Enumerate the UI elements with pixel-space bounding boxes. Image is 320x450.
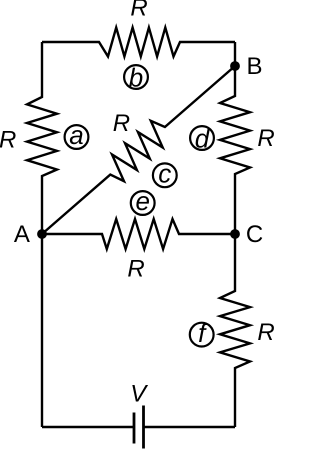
circled letter a (marker for resistor Ra) — [65, 120, 89, 150]
circled letter f (marker for resistor Rf) — [190, 318, 214, 348]
node A junction dot — [37, 229, 47, 239]
wire bottom-right: battery positive plate to corner — [144, 426, 236, 428]
circled letter b (marker for resistor Rb) — [124, 62, 148, 92]
resistor Rc (diagonal, between node A and node B) — [42, 66, 235, 234]
battery V negative plate (short) — [133, 413, 136, 444]
wire from node A down to bottom-left corner — [41, 234, 43, 427]
resistor Rd (right side, between node B and node C) — [220, 66, 250, 234]
svg-text:R: R — [0, 127, 16, 154]
svg-text:R: R — [130, 0, 147, 21]
svg-text:c: c — [158, 158, 171, 188]
circled letter c (marker for resistor Rc) — [153, 158, 177, 188]
circled letter e (marker for resistor Re) — [131, 186, 155, 216]
svg-text:b: b — [129, 62, 143, 92]
node B junction dot — [230, 61, 240, 71]
svg-text:R: R — [127, 255, 144, 282]
svg-text:C: C — [246, 221, 263, 248]
resistor Ra (left side, between top-left corner and node A) — [27, 42, 57, 234]
circled letter d (marker for resistor Rd) — [190, 123, 214, 153]
svg-text:V: V — [130, 381, 148, 408]
svg-text:a: a — [69, 120, 83, 150]
svg-text:R: R — [257, 319, 274, 346]
svg-text:R: R — [257, 125, 274, 152]
svg-text:B: B — [246, 53, 262, 80]
svg-text:A: A — [14, 221, 30, 248]
svg-text:d: d — [195, 123, 211, 153]
resistor Rf (right side, between node C and bottom-right corner) — [220, 234, 250, 427]
battery V positive plate (long) — [142, 406, 145, 449]
wire bottom-left: corner to battery negative plate — [42, 426, 134, 428]
wire from top-right corner down to node B — [234, 42, 236, 66]
svg-text:R: R — [113, 110, 130, 137]
resistor Re (middle horizontal, between node A and node C) — [42, 219, 235, 249]
node C junction dot — [230, 229, 240, 239]
svg-text:e: e — [135, 186, 149, 216]
resistor Rb (top side, between top-left corner and top-right corner) — [42, 28, 235, 57]
